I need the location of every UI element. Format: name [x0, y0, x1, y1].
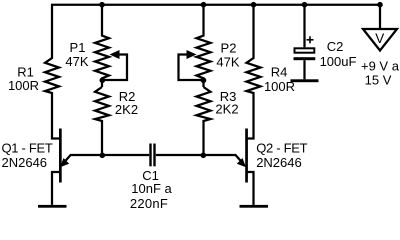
svg-text:15 V: 15 V	[365, 73, 392, 88]
svg-text:220nF: 220nF	[130, 196, 168, 211]
capacitor C2 polarity plus	[307, 36, 314, 43]
transistor Q1 channel bar	[59, 129, 62, 183]
svg-text:2K2: 2K2	[115, 102, 138, 117]
potentiometer P2 body	[197, 5, 211, 87]
svg-text:100uF: 100uF	[320, 54, 357, 69]
junction node P1 wiper	[100, 78, 106, 84]
ground bar under Q1	[38, 205, 67, 208]
junction node P2 wiper	[201, 78, 207, 84]
potentiometer P1 wiper wire	[102, 55, 127, 81]
svg-text:47K: 47K	[65, 54, 88, 69]
wire to supply symbol	[379, 5, 381, 29]
potentiometer P1 wiper arrowhead	[110, 50, 120, 59]
transistor Q2 base-1 lead to ground	[247, 172, 254, 205]
capacitor C1 left plate	[149, 144, 151, 167]
junction node rail-P2	[201, 2, 207, 8]
ground bar under Q2	[240, 205, 269, 208]
transistor Q2 emitter arrowhead	[237, 158, 246, 167]
potentiometer P1 body	[95, 5, 109, 87]
capacitor C2 positive plate	[295, 48, 315, 52]
svg-text:+9 V a: +9 V a	[361, 59, 400, 74]
svg-text:2N2646: 2N2646	[2, 155, 48, 170]
svg-text:V: V	[375, 31, 384, 46]
ground bar under C2	[291, 79, 319, 82]
svg-text:2K2: 2K2	[215, 102, 238, 117]
svg-text:C2: C2	[327, 39, 344, 54]
junction node rail-R4	[251, 2, 257, 8]
svg-text:10nF a: 10nF a	[131, 181, 172, 196]
supply symbol V triangle	[363, 29, 397, 51]
svg-text:100R: 100R	[264, 79, 295, 94]
svg-text:P2: P2	[221, 41, 237, 56]
svg-text:Q1 - FET: Q1 - FET	[2, 141, 53, 156]
svg-text:2N2646: 2N2646	[256, 155, 302, 170]
svg-text:47K: 47K	[216, 55, 239, 70]
svg-text:R4: R4	[271, 65, 288, 80]
resistor R1 (with wires to rail and to Q1 base-2)	[45, 5, 60, 139]
junction node Q2 emitter	[201, 153, 207, 159]
transistor Q2 channel bar	[245, 129, 248, 183]
transistor Q1 emitter arrowhead	[60, 158, 69, 167]
transistor Q1 base-1 lead to ground	[52, 172, 60, 205]
capacitor C2 negative plate	[294, 57, 316, 60]
resistor R3 (with wire down to emitter node)	[197, 87, 211, 155]
junction node rail-C2	[302, 2, 308, 8]
capacitor C2 bottom lead	[303, 60, 305, 79]
junction node Q1 emitter	[100, 153, 106, 159]
capacitor C2 lead from rail	[303, 5, 305, 48]
potentiometer P2 wiper arrowhead	[187, 50, 197, 59]
potentiometer P2 wiper wire	[179, 55, 204, 81]
junction node rail-V	[377, 2, 383, 8]
capacitor C1 right plate	[153, 144, 155, 167]
resistor R4 (with wires to rail and to Q2 base-2)	[246, 5, 261, 139]
transistor Q2 emitter wire from C1	[156, 155, 242, 162]
junction node rail-P1	[99, 2, 105, 8]
transistor Q1 emitter wire to C1	[65, 155, 150, 162]
svg-text:P1: P1	[70, 40, 86, 55]
svg-text:Q2 - FET: Q2 - FET	[256, 141, 307, 156]
wire top supply rail	[51, 4, 380, 6]
svg-text:100R: 100R	[8, 78, 39, 93]
resistor R2 (with wire down to emitter node)	[95, 87, 109, 155]
